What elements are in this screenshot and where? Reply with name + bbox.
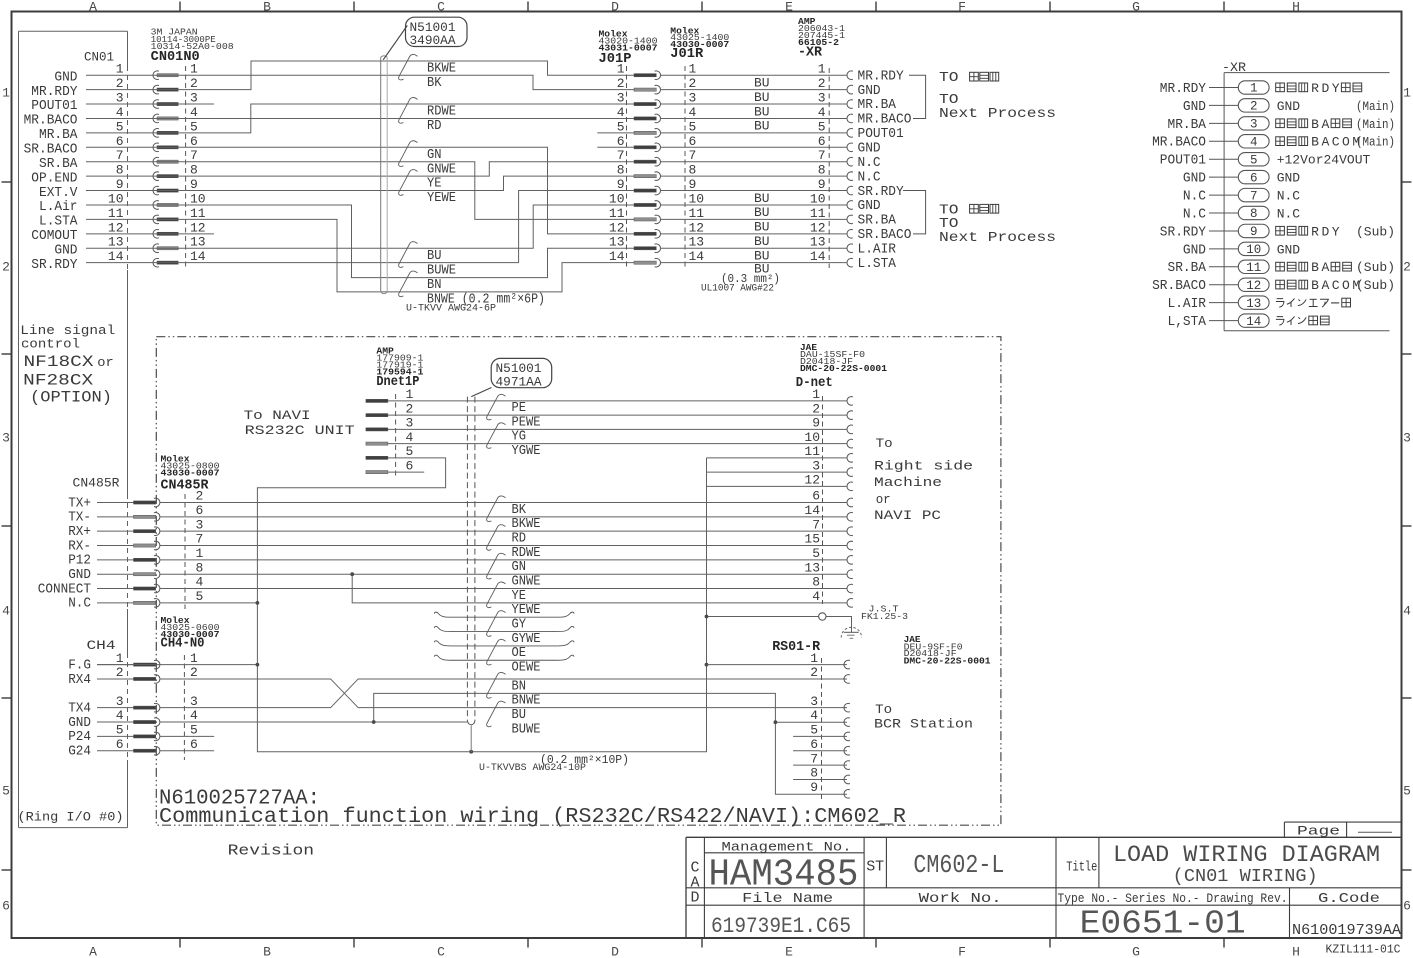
wire BN : CN01-10 to J01P-13	[86, 205, 634, 278]
svg-text:or: or	[876, 492, 891, 507]
svg-text:NF18CX: NF18CX	[24, 353, 94, 371]
svg-text:GND: GND	[1277, 171, 1301, 186]
cable N51001 3490AA bundle lines	[380, 57, 382, 291]
svg-text:C: C	[1332, 135, 1340, 150]
svg-text:5: 5	[1250, 153, 1258, 167]
svg-text:13: 13	[804, 560, 820, 575]
wire BKWE : CN01-2 to J01P-1	[86, 61, 634, 90]
svg-text:DMC-20-22S-0001: DMC-20-22S-0001	[800, 363, 887, 374]
svg-text:12: 12	[108, 220, 124, 235]
CN01-3 stub wire	[86, 103, 214, 105]
svg-text:9: 9	[818, 177, 826, 192]
svg-text:(Main): (Main)	[1356, 117, 1395, 132]
svg-text:2: 2	[190, 76, 198, 91]
svg-text:R: R	[1311, 224, 1319, 239]
svg-text:9: 9	[617, 177, 625, 192]
svg-text:H: H	[1292, 945, 1300, 958]
svg-text:ST: ST	[866, 859, 884, 876]
svg-text:O: O	[1342, 135, 1350, 150]
svg-text:To: To	[875, 702, 892, 717]
svg-text:2: 2	[810, 665, 818, 680]
svg-text:6: 6	[116, 737, 124, 752]
cable 2 drain wire	[470, 726, 472, 752]
svg-text:6: 6	[1250, 171, 1258, 185]
Dnet1P pins 1-4 wires to D-net	[388, 400, 847, 402]
svg-text:15: 15	[804, 532, 820, 547]
svg-text:7: 7	[116, 148, 124, 163]
svg-text:5: 5	[810, 723, 818, 738]
wire RD : CN01-4 to J01P-4	[86, 117, 634, 119]
CN01 pin 5 contact	[153, 129, 159, 138]
svg-text:7: 7	[689, 148, 697, 163]
svg-text:2: 2	[116, 665, 124, 680]
svg-text:4: 4	[190, 105, 198, 120]
svg-text:3: 3	[406, 416, 414, 431]
svg-text:10: 10	[108, 191, 124, 206]
CN01 pin 14 contact	[153, 258, 159, 267]
svg-text:E0651-01: E0651-01	[1080, 906, 1246, 943]
svg-text:2: 2	[2, 260, 10, 275]
svg-text:C: C	[437, 945, 445, 958]
junction shield x cable2 drain	[469, 750, 473, 754]
svg-text:H: H	[1292, 0, 1300, 15]
svg-text:5: 5	[818, 119, 826, 134]
svg-text:7: 7	[1250, 189, 1258, 203]
wire BNWE : CN01-11 to J01P-14	[86, 219, 634, 292]
svg-text:BU: BU	[754, 104, 770, 119]
svg-text:4: 4	[116, 708, 124, 723]
svg-text:6: 6	[190, 737, 198, 752]
wire YE : CN01-8 to J01P-7	[86, 162, 634, 176]
svg-text:9: 9	[116, 177, 124, 192]
svg-text:BU: BU	[754, 75, 770, 90]
svg-text:File Name: File Name	[742, 891, 833, 907]
svg-text:11: 11	[609, 206, 625, 221]
svg-text:+12Vor24VOUT: +12Vor24VOUT	[1277, 153, 1371, 168]
svg-text:U-TKVV AWG24-6P: U-TKVV AWG24-6P	[406, 302, 496, 314]
svg-text:Next Process: Next Process	[939, 230, 1056, 246]
ground branch line with terminal	[707, 616, 819, 618]
-XR mating dashed line	[828, 68, 830, 268]
svg-text:10: 10	[190, 191, 206, 206]
CN01 pin 2 contact	[153, 85, 159, 94]
wire GNWE : CN01-7 to J01P-11	[86, 162, 634, 220]
svg-text:E: E	[785, 0, 793, 15]
CH4 P24 stub	[160, 735, 214, 737]
svg-text:B: B	[1311, 135, 1319, 150]
svg-text:12: 12	[804, 473, 820, 488]
CN01-12 stub wire	[86, 233, 214, 235]
wire CN485R-4 to D-net	[160, 588, 847, 590]
wire CH4 GND	[160, 721, 467, 723]
svg-text:B: B	[1311, 117, 1319, 132]
svg-text:4: 4	[406, 430, 414, 445]
svg-text:5: 5	[812, 546, 820, 561]
svg-text:3: 3	[689, 91, 697, 106]
wire CN485R-7 to D-net	[160, 545, 847, 547]
shield wire from Dnet1P-5	[257, 458, 706, 752]
svg-text:Right side: Right side	[874, 459, 973, 474]
svg-text:3: 3	[196, 517, 204, 532]
wire CH4 RX4 with crossover to RS01-R 2	[160, 679, 847, 708]
svg-text:8: 8	[818, 163, 826, 178]
svg-text:Machine: Machine	[874, 475, 942, 490]
svg-text:L.STA: L.STA	[858, 256, 897, 272]
svg-text:13: 13	[1246, 297, 1261, 311]
wire BK : CN01-1 to J01P-2	[86, 75, 634, 89]
svg-text:(Sub): (Sub)	[1356, 278, 1395, 293]
svg-text:UL1007 AWG#22: UL1007 AWG#22	[701, 283, 774, 295]
svg-text:3: 3	[1250, 118, 1258, 132]
svg-text:1: 1	[810, 651, 818, 666]
CN01 pin 6 contact	[153, 143, 159, 152]
svg-text:14: 14	[1246, 315, 1261, 329]
svg-text:9: 9	[812, 416, 820, 431]
svg-text:5: 5	[196, 589, 204, 604]
svg-text:4: 4	[1403, 604, 1411, 619]
svg-text:R: R	[1311, 81, 1319, 96]
CH4 mating dashed line	[183, 655, 185, 760]
svg-text:Title: Title	[1066, 860, 1097, 876]
svg-text:B: B	[1311, 278, 1319, 293]
svg-text:B: B	[263, 0, 271, 15]
cable 2 callout leader	[471, 388, 491, 397]
svg-text:2: 2	[190, 665, 198, 680]
svg-text:BU: BU	[754, 191, 770, 206]
RS01-R pin1 junction	[705, 663, 709, 667]
svg-text:BU: BU	[754, 119, 770, 134]
svg-text:10: 10	[689, 191, 705, 206]
svg-text:5: 5	[116, 723, 124, 738]
svg-text:11: 11	[689, 206, 705, 221]
svg-text:14: 14	[609, 249, 625, 264]
CN01 pin 1 contact	[153, 71, 159, 80]
svg-text:3: 3	[116, 91, 124, 106]
svg-text:BU: BU	[754, 234, 770, 249]
svg-text:1: 1	[617, 62, 625, 77]
Dnet1P pin6 stub	[388, 471, 424, 473]
svg-text:1: 1	[1403, 86, 1411, 101]
svg-text:N.C: N.C	[1183, 206, 1206, 222]
svg-text:N.C: N.C	[1277, 206, 1301, 221]
wire RDWE : CN01-5 to J01P-3	[86, 104, 634, 133]
svg-text:LOAD WIRING DIAGRAM: LOAD WIRING DIAGRAM	[1113, 842, 1380, 868]
svg-text:3: 3	[190, 91, 198, 106]
wire J01R-6 to XR-6	[660, 146, 847, 148]
J.S.T FK1.25-3 ring terminal	[819, 613, 826, 620]
CN01 pin 12 contact	[153, 230, 159, 239]
Dnet1P pin 2	[366, 414, 388, 417]
svg-text:10: 10	[609, 191, 625, 206]
svg-text:D: D	[611, 945, 619, 958]
svg-text:or: or	[97, 356, 114, 370]
svg-text:3490AA: 3490AA	[410, 33, 456, 48]
junction CH4 GND branch	[372, 720, 376, 724]
svg-text:4971AA: 4971AA	[496, 374, 542, 389]
svg-text:11: 11	[810, 206, 826, 221]
wire CN485R-1 to D-net	[160, 559, 847, 561]
svg-text:11: 11	[804, 444, 820, 459]
svg-text:Next Process: Next Process	[939, 106, 1056, 122]
CN01 pin 9 contact	[153, 186, 159, 195]
svg-text:8: 8	[196, 560, 204, 575]
svg-text:4: 4	[812, 589, 820, 604]
svg-text:(CN01 WIRING): (CN01 WIRING)	[1173, 867, 1318, 887]
svg-text:14: 14	[108, 249, 124, 264]
svg-text:HAM3485: HAM3485	[709, 853, 859, 896]
svg-text:BUWE: BUWE	[427, 262, 456, 278]
svg-text:4: 4	[617, 105, 625, 120]
svg-text:1: 1	[2, 86, 10, 101]
svg-text:6: 6	[810, 737, 818, 752]
wire GND branch to D-net pin4 row	[352, 574, 847, 603]
svg-text:8: 8	[812, 575, 820, 590]
svg-text:Type No.- Series No.- Drawing: Type No.- Series No.- Drawing Rev.	[1058, 891, 1288, 906]
svg-text:7: 7	[190, 148, 198, 163]
svg-text:GND: GND	[1183, 242, 1206, 258]
svg-text:1: 1	[116, 651, 124, 666]
svg-text:G24: G24	[68, 744, 91, 760]
svg-text:43030-0007: 43030-0007	[161, 467, 220, 478]
svg-text:BCR Station: BCR Station	[874, 716, 973, 731]
CN01 pin 7 contact	[153, 157, 159, 166]
svg-text:BU: BU	[754, 90, 770, 105]
svg-text:6: 6	[617, 134, 625, 149]
svg-text:5: 5	[2, 784, 10, 799]
svg-text:14: 14	[190, 249, 206, 264]
D-net pin 11 wire from shield	[707, 457, 847, 459]
svg-text:5: 5	[1403, 784, 1411, 799]
svg-text:8: 8	[810, 766, 818, 781]
title block outline	[686, 836, 1402, 838]
svg-text:6: 6	[116, 134, 124, 149]
svg-text:3: 3	[2, 431, 10, 446]
svg-text:RX4: RX4	[68, 672, 91, 688]
svg-text:DMC-20-22S-0001: DMC-20-22S-0001	[904, 656, 991, 667]
svg-text:(OPTION): (OPTION)	[30, 389, 112, 407]
bracket group 2 (sub)	[903, 191, 926, 234]
CN01 pin 8 contact	[153, 172, 159, 181]
svg-text:4: 4	[818, 105, 826, 120]
svg-text:A: A	[89, 945, 97, 958]
wire GN : CN01-6 to J01P-12	[86, 147, 634, 234]
svg-text:G: G	[1132, 0, 1140, 15]
svg-text:2: 2	[617, 76, 625, 91]
CN01 pin 3 contact	[153, 100, 159, 109]
svg-text:3: 3	[190, 694, 198, 709]
svg-text:D: D	[1321, 224, 1329, 239]
-XR table border	[1224, 72, 1389, 74]
wire J01R-5 to XR-5	[660, 132, 847, 134]
junction shield x CN485R N.C	[256, 601, 260, 605]
svg-text:NF28CX: NF28CX	[23, 372, 93, 390]
wire CN485R-8 to D-net	[160, 573, 847, 575]
wire RS01-R pin4 tap	[775, 721, 847, 723]
svg-text:14: 14	[804, 503, 820, 518]
CN01 pin 11 contact	[153, 215, 159, 224]
wire CN485R-3 to D-net	[160, 530, 847, 532]
svg-text:FK1.25-3: FK1.25-3	[861, 611, 908, 622]
svg-text:KZIL111-01C: KZIL111-01C	[1326, 944, 1401, 957]
svg-text:MR.BACO: MR.BACO	[1152, 135, 1206, 151]
svg-text:8: 8	[190, 163, 198, 178]
earth ground symbol	[841, 627, 861, 637]
svg-text:8: 8	[1250, 207, 1258, 221]
svg-text:SR.BA: SR.BA	[1168, 260, 1207, 276]
J01P-6 stub wire	[597, 146, 634, 148]
svg-text:To: To	[876, 436, 893, 451]
svg-text:1: 1	[196, 546, 204, 561]
cable N51001 4971AA bundle dashed lines	[466, 397, 468, 721]
svg-text:11: 11	[108, 206, 124, 221]
svg-text:1: 1	[116, 62, 124, 77]
CH4 G24 stub	[160, 750, 214, 752]
svg-text:9: 9	[810, 780, 818, 795]
svg-text:NAVI PC: NAVI PC	[874, 508, 941, 523]
svg-text:N.C: N.C	[1277, 188, 1301, 203]
svg-text:5: 5	[190, 119, 198, 134]
svg-text:BK: BK	[427, 75, 442, 91]
wire J01R-13 to XR-13	[660, 247, 847, 249]
wire CH4 TX4 with crossover to RS01-R 3?	[160, 679, 847, 708]
svg-text:3: 3	[812, 458, 820, 473]
J01P-5 stub wire	[597, 132, 634, 134]
svg-text:3: 3	[818, 91, 826, 106]
svg-text:SR.RDY: SR.RDY	[31, 257, 78, 273]
svg-text:CM602-L: CM602-L	[913, 850, 1004, 880]
wire J01R-8 to XR-8	[660, 175, 847, 177]
svg-text:6: 6	[196, 503, 204, 518]
wire J01R-12 to XR-12	[660, 233, 847, 235]
wire J01R-7 to XR-7	[660, 161, 847, 163]
svg-text:12: 12	[1246, 279, 1261, 293]
svg-text:1: 1	[190, 651, 198, 666]
wire J01R-9 to XR-9	[660, 190, 847, 192]
svg-text:Line signal: Line signal	[20, 323, 115, 338]
svg-text:10: 10	[804, 430, 820, 445]
cable 2 callout bubble N51001 4971AA	[491, 358, 552, 387]
svg-text:7: 7	[810, 751, 818, 766]
svg-text:5: 5	[116, 119, 124, 134]
svg-text:6: 6	[406, 458, 414, 473]
svg-text:CH4-N0: CH4-N0	[161, 637, 205, 652]
svg-text:Y: Y	[1332, 81, 1340, 96]
svg-text:4: 4	[196, 575, 204, 590]
svg-text:3: 3	[617, 91, 625, 106]
svg-text:13: 13	[689, 235, 705, 250]
wire BU : CN01-13 to J01P-10	[86, 205, 634, 248]
svg-text:(Main): (Main)	[1356, 99, 1395, 114]
svg-text:GND: GND	[1183, 99, 1206, 115]
svg-text:D: D	[611, 0, 619, 15]
svg-text:2: 2	[812, 401, 820, 416]
svg-text:O: O	[1342, 278, 1350, 293]
svg-text:D: D	[690, 890, 699, 907]
svg-text:(Main): (Main)	[1356, 135, 1395, 150]
svg-text:8: 8	[116, 163, 124, 178]
wire J01R-2 to XR-2	[660, 89, 847, 91]
bracket group 1 (main)	[909, 75, 926, 118]
svg-text:10: 10	[1246, 243, 1261, 257]
RS01-R mating dashed line	[821, 658, 823, 799]
svg-text:BU: BU	[754, 220, 770, 235]
frame zone ticks top/bottom	[179, 2, 181, 12]
communication wiring phantom box	[156, 337, 1001, 826]
svg-text:2: 2	[818, 76, 826, 91]
svg-text:GND: GND	[1277, 99, 1301, 114]
svg-text:F: F	[958, 945, 966, 958]
svg-text:Y: Y	[1332, 224, 1340, 239]
spare wires GY GYWE OE OEWE with coiled ends	[451, 616, 558, 618]
svg-text:SR.RDY: SR.RDY	[1160, 224, 1207, 240]
svg-text:1: 1	[812, 387, 820, 402]
svg-text:5: 5	[406, 444, 414, 459]
connector CN01 mating face dashed line	[185, 66, 187, 270]
svg-text:6: 6	[190, 134, 198, 149]
wire CN485R-6 to D-net	[160, 516, 847, 518]
svg-text:7: 7	[617, 148, 625, 163]
wire J01R-11 to XR-11	[660, 218, 847, 220]
svg-text:control: control	[21, 337, 80, 352]
svg-text:To NAVI: To NAVI	[244, 408, 311, 423]
Dnet1P pin 6	[366, 471, 388, 474]
svg-text:TO: TO	[939, 70, 959, 86]
svg-text:7: 7	[818, 148, 826, 163]
twisted pair marks cable 2	[487, 394, 506, 419]
svg-text:GND: GND	[1183, 171, 1206, 187]
wire J01R-3 to XR-3	[660, 103, 847, 105]
svg-text:12: 12	[810, 220, 826, 235]
svg-text:YEWE: YEWE	[427, 190, 456, 206]
svg-text:G.Code: G.Code	[1318, 891, 1380, 907]
svg-text:13: 13	[190, 235, 206, 250]
svg-text:2: 2	[196, 489, 204, 504]
svg-text:Work No.: Work No.	[919, 891, 1002, 907]
svg-text:4: 4	[1250, 135, 1258, 149]
svg-text:Management No.: Management No.	[722, 839, 852, 854]
svg-text:L,STA: L,STA	[1168, 314, 1207, 330]
left device (machine I/O) outline box	[19, 30, 128, 32]
svg-text:9: 9	[689, 177, 697, 192]
svg-text:13: 13	[810, 235, 826, 250]
svg-text:4: 4	[2, 604, 10, 619]
svg-text:B: B	[263, 945, 271, 958]
svg-text:RS232C UNIT: RS232C UNIT	[245, 423, 355, 438]
svg-text:4: 4	[810, 708, 818, 723]
svg-text:5: 5	[617, 119, 625, 134]
svg-text:1: 1	[818, 62, 826, 77]
svg-text:MR.BA: MR.BA	[1168, 117, 1207, 133]
svg-text:A: A	[1321, 117, 1329, 132]
svg-text:Communication function wiring: Communication function wiring (RS232C/RS…	[159, 806, 906, 829]
svg-text:C: C	[437, 0, 445, 15]
Dnet1P mating dashed line	[395, 394, 397, 478]
svg-text:A: A	[1321, 278, 1329, 293]
svg-text:J01P: J01P	[599, 52, 632, 67]
svg-text:5: 5	[689, 119, 697, 134]
Dnet1P pin 5	[366, 456, 388, 459]
page box	[1284, 821, 1401, 823]
junction GND branch	[350, 572, 354, 576]
J01P mating dashed line	[626, 66, 628, 270]
svg-text:(Sub): (Sub)	[1356, 260, 1395, 275]
D-net pin 3 stub	[707, 471, 847, 473]
svg-text:14: 14	[810, 249, 826, 264]
svg-text:9: 9	[1250, 225, 1258, 239]
svg-text:12: 12	[190, 220, 206, 235]
svg-text:4: 4	[689, 105, 697, 120]
svg-text:6: 6	[2, 899, 10, 914]
